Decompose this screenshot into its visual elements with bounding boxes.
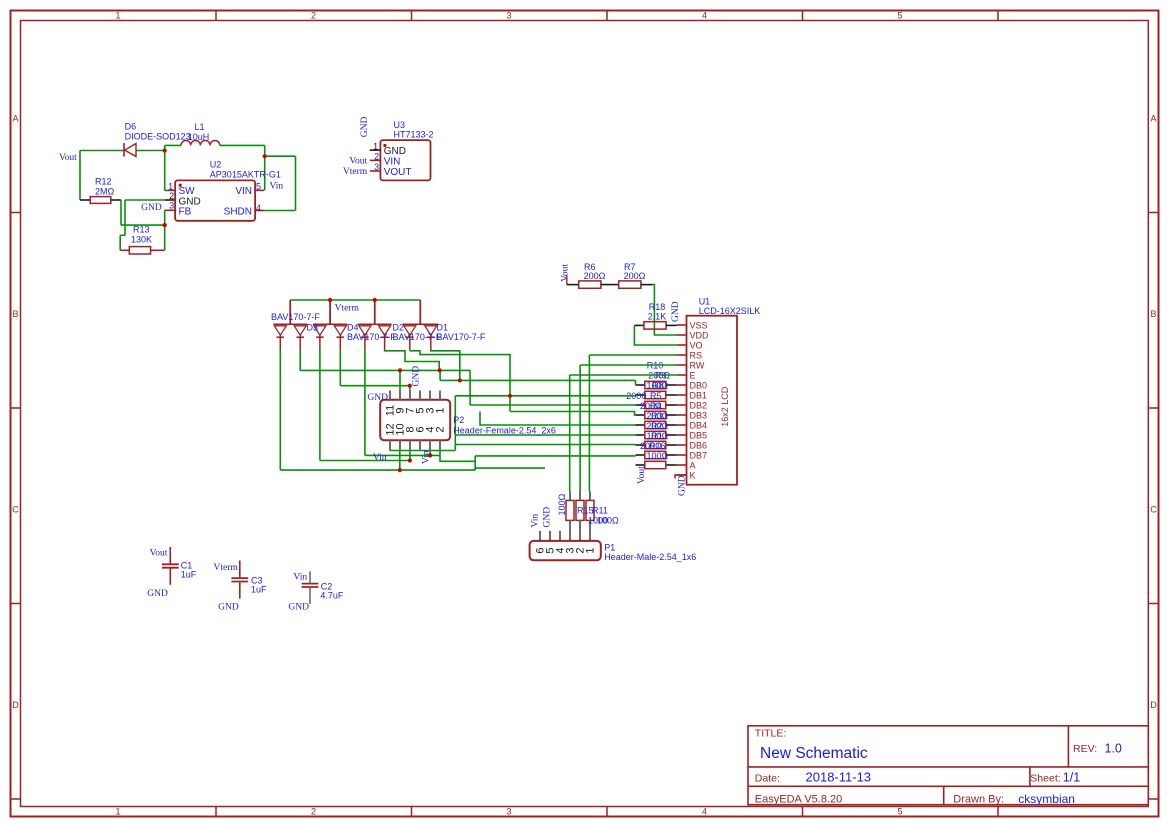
svg-text:DB4: DB4 <box>690 420 708 430</box>
svg-text:Vin: Vin <box>531 514 541 528</box>
svg-text:1uF: 1uF <box>251 585 267 595</box>
svg-text:E: E <box>690 370 696 380</box>
svg-text:Header-Male-2.54_1x6: Header-Male-2.54_1x6 <box>604 552 696 562</box>
svg-text:B: B <box>1150 309 1156 319</box>
svg-text:REV:: REV: <box>1073 743 1097 755</box>
svg-text:2MΩ: 2MΩ <box>95 187 115 197</box>
svg-text:R5: R5 <box>650 391 662 401</box>
svg-text:100Ω: 100Ω <box>647 451 669 461</box>
svg-text:2: 2 <box>311 11 316 21</box>
svg-text:4.7uF: 4.7uF <box>320 591 344 601</box>
svg-text:Header-Female-2.54_2x6: Header-Female-2.54_2x6 <box>453 425 556 435</box>
svg-text:New Schematic: New Schematic <box>760 745 868 762</box>
svg-text:P1: P1 <box>604 543 615 553</box>
svg-text:LCD-16X2SILK: LCD-16X2SILK <box>699 306 761 316</box>
svg-text:Date:: Date: <box>755 773 780 785</box>
svg-text:130K: 130K <box>131 235 152 245</box>
svg-text:DB3: DB3 <box>690 410 708 420</box>
svg-text:GND: GND <box>141 203 162 213</box>
svg-text:Drawn By:: Drawn By: <box>953 794 1004 806</box>
svg-text:Vterm: Vterm <box>214 563 239 573</box>
svg-text:D4: D4 <box>347 323 359 333</box>
svg-text:R13: R13 <box>133 225 150 235</box>
svg-text:cksymbian: cksymbian <box>1018 792 1075 806</box>
svg-text:GND: GND <box>218 602 239 612</box>
svg-text:4: 4 <box>702 11 707 21</box>
svg-text:DB7: DB7 <box>690 450 708 460</box>
svg-text:200Ω: 200Ω <box>584 271 606 281</box>
svg-text:R8: R8 <box>652 381 664 391</box>
svg-text:1: 1 <box>585 547 597 553</box>
svg-text:GND: GND <box>411 366 421 387</box>
svg-text:100Ω: 100Ω <box>557 493 567 515</box>
svg-text:Vterm: Vterm <box>335 303 360 313</box>
svg-text:Vterm: Vterm <box>343 167 368 177</box>
svg-text:BAV170-7-F: BAV170-7-F <box>271 312 320 322</box>
svg-text:L1: L1 <box>194 122 204 132</box>
svg-text:K: K <box>690 470 696 480</box>
svg-text:4: 4 <box>702 807 707 817</box>
svg-text:10uH: 10uH <box>188 132 210 142</box>
svg-text:D: D <box>12 700 19 710</box>
svg-text:16x2 LCD: 16x2 LCD <box>720 386 730 427</box>
svg-text:B: B <box>12 309 18 319</box>
svg-text:VOUT: VOUT <box>384 167 412 178</box>
svg-text:1/1: 1/1 <box>1063 771 1080 785</box>
svg-text:GND: GND <box>367 393 388 403</box>
svg-text:TITLE:: TITLE: <box>755 728 787 740</box>
svg-text:GND: GND <box>360 116 370 137</box>
svg-text:U1: U1 <box>699 297 711 307</box>
svg-text:GND: GND <box>147 589 168 599</box>
svg-text:R11: R11 <box>592 506 608 516</box>
svg-text:2018-11-13: 2018-11-13 <box>806 770 872 785</box>
svg-text:5: 5 <box>897 11 902 21</box>
svg-text:Sheet:: Sheet: <box>1030 773 1060 785</box>
svg-text:2: 2 <box>374 152 379 162</box>
svg-text:A: A <box>690 460 696 470</box>
svg-text:200Ω: 200Ω <box>624 271 646 281</box>
svg-text:1: 1 <box>373 141 378 151</box>
svg-text:C: C <box>12 504 19 514</box>
svg-text:C: C <box>1150 504 1157 514</box>
svg-text:BAV170-7-F: BAV170-7-F <box>393 332 442 342</box>
svg-text:Vout: Vout <box>150 549 168 559</box>
svg-text:1: 1 <box>115 11 120 21</box>
svg-text:VIN: VIN <box>384 156 401 167</box>
svg-text:3: 3 <box>506 807 511 817</box>
svg-text:AP3015AKTR-G1: AP3015AKTR-G1 <box>210 170 281 180</box>
svg-text:3: 3 <box>374 162 379 172</box>
svg-text:BAV170-7-F: BAV170-7-F <box>437 332 486 342</box>
svg-text:R2: R2 <box>651 421 663 431</box>
svg-text:2: 2 <box>169 191 174 201</box>
svg-text:VSS: VSS <box>690 320 708 330</box>
svg-text:DB6: DB6 <box>690 440 708 450</box>
svg-text:3: 3 <box>506 11 511 21</box>
svg-text:EasyEDA V5.8.20: EasyEDA V5.8.20 <box>755 794 842 806</box>
svg-text:FB: FB <box>179 206 192 217</box>
svg-text:3: 3 <box>169 200 174 210</box>
svg-text:2.1K: 2.1K <box>648 311 667 321</box>
svg-text:D2: D2 <box>393 323 405 333</box>
svg-text:D3: D3 <box>307 323 319 333</box>
svg-text:DB2: DB2 <box>690 400 708 410</box>
svg-text:DB0: DB0 <box>690 380 708 390</box>
svg-text:100Ω: 100Ω <box>597 516 619 526</box>
svg-text:Vout: Vout <box>637 466 647 484</box>
svg-text:VIN: VIN <box>235 186 252 197</box>
svg-text:1: 1 <box>168 181 173 191</box>
svg-text:Vin: Vin <box>270 182 284 192</box>
svg-text:R4: R4 <box>650 401 662 411</box>
svg-text:R16: R16 <box>649 441 666 451</box>
svg-text:2: 2 <box>434 426 446 432</box>
svg-text:A: A <box>12 113 18 123</box>
svg-text:1uF: 1uF <box>181 570 197 580</box>
svg-text:VO: VO <box>690 340 703 350</box>
svg-text:Vout: Vout <box>59 153 77 163</box>
svg-text:DIODE-SOD123: DIODE-SOD123 <box>125 132 191 142</box>
svg-text:2: 2 <box>311 807 316 817</box>
svg-text:HT7133-2: HT7133-2 <box>394 130 434 140</box>
svg-text:RS: RS <box>690 350 703 360</box>
svg-text:VDD: VDD <box>690 330 710 340</box>
svg-text:5: 5 <box>256 181 261 191</box>
svg-text:1: 1 <box>434 407 446 413</box>
svg-text:GND: GND <box>678 475 688 496</box>
svg-text:SHDN: SHDN <box>224 206 252 217</box>
svg-text:RW: RW <box>690 360 705 370</box>
svg-text:DB1: DB1 <box>690 390 708 400</box>
svg-text:GND: GND <box>671 301 681 322</box>
svg-text:GND: GND <box>542 507 552 528</box>
svg-text:U2: U2 <box>210 160 222 170</box>
svg-text:D1: D1 <box>437 323 449 333</box>
svg-text:1.0: 1.0 <box>1105 742 1122 756</box>
svg-text:R12: R12 <box>95 177 112 187</box>
svg-text:A: A <box>1150 113 1156 123</box>
svg-text:BAV170-7-F: BAV170-7-F <box>347 332 396 342</box>
svg-text:Vin: Vin <box>293 573 307 583</box>
svg-text:D: D <box>1150 700 1157 710</box>
svg-text:1: 1 <box>115 807 120 817</box>
svg-text:4: 4 <box>256 203 261 213</box>
svg-text:Vout: Vout <box>560 264 570 282</box>
svg-text:DB5: DB5 <box>690 430 708 440</box>
svg-text:D6: D6 <box>125 122 137 132</box>
svg-text:P2: P2 <box>453 415 464 425</box>
svg-text:GND: GND <box>288 602 309 612</box>
svg-text:Vout: Vout <box>349 157 367 167</box>
svg-text:U3: U3 <box>394 120 406 130</box>
svg-text:Vin: Vin <box>373 453 387 463</box>
svg-text:R1: R1 <box>651 431 663 441</box>
svg-text:R3: R3 <box>651 411 663 421</box>
svg-text:5: 5 <box>897 807 902 817</box>
